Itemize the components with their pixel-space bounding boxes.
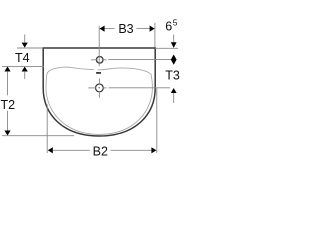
- T4 leader line bottom: [24, 71, 26, 79]
- T2 dimension line upper: [7, 71, 9, 95]
- washbasin inner bowl outline: [46, 67, 152, 134]
- B2 dimension line left: [53, 149, 90, 151]
- drain hole crosshair ticks: [98, 78, 100, 84]
- svg-text:T4: T4: [15, 51, 30, 65]
- overflow dash mark: [96, 72, 101, 74]
- drain hole center dot: [99, 87, 100, 88]
- B2 dimension line right: [111, 149, 152, 151]
- B3 right arrowhead: [150, 26, 155, 32]
- B2 right arrowhead: [151, 147, 156, 153]
- T3 leader line: [173, 93, 175, 103]
- T2 dimension line lower: [7, 111, 9, 131]
- washbasin outer outline: [43, 48, 155, 136]
- B2 right extension line: [156, 88, 158, 153]
- B3 right extension line: [154, 23, 156, 48]
- T4 top extension line: [17, 47, 43, 49]
- deck extension line: [2, 65, 44, 67]
- drain hole: [96, 84, 104, 92]
- T2 down arrowhead: [4, 131, 10, 136]
- T3 up arrowhead: [171, 88, 177, 93]
- 6^5 leader line: [173, 35, 175, 44]
- svg-text:5: 5: [173, 17, 178, 27]
- T2 up arrowhead: [4, 67, 10, 72]
- B2 left arrowhead: [48, 147, 53, 153]
- svg-text:6: 6: [165, 20, 172, 34]
- 6^5 top extension line: [155, 47, 178, 49]
- 6^5 down arrowhead: [171, 42, 177, 48]
- B2 left extension line: [46, 105, 48, 154]
- B3 left arrowhead: [100, 26, 105, 32]
- drain centerline extension to right: [108, 87, 170, 89]
- dimension B3 line left segment: [99, 28, 114, 30]
- tap hole crosshair ticks: [91, 59, 97, 61]
- dimension B3 line right segment: [137, 28, 155, 30]
- tap hole centerline extension to right: [108, 59, 176, 61]
- svg-text:B2: B2: [93, 145, 108, 159]
- inner back edge gap: [94, 69, 98, 71]
- svg-text:T2: T2: [1, 98, 16, 112]
- diamond arrowheads at tap centerline: [171, 55, 177, 65]
- vertical centerline: [98, 26, 100, 66]
- T4 down arrowhead: [22, 43, 28, 48]
- front extension line: [2, 135, 74, 137]
- T4 leader line top: [24, 35, 26, 43]
- svg-text:B3: B3: [118, 22, 133, 36]
- svg-text:T3: T3: [165, 69, 180, 83]
- T4 up arrowhead: [22, 67, 28, 72]
- tap hole: [96, 57, 103, 64]
